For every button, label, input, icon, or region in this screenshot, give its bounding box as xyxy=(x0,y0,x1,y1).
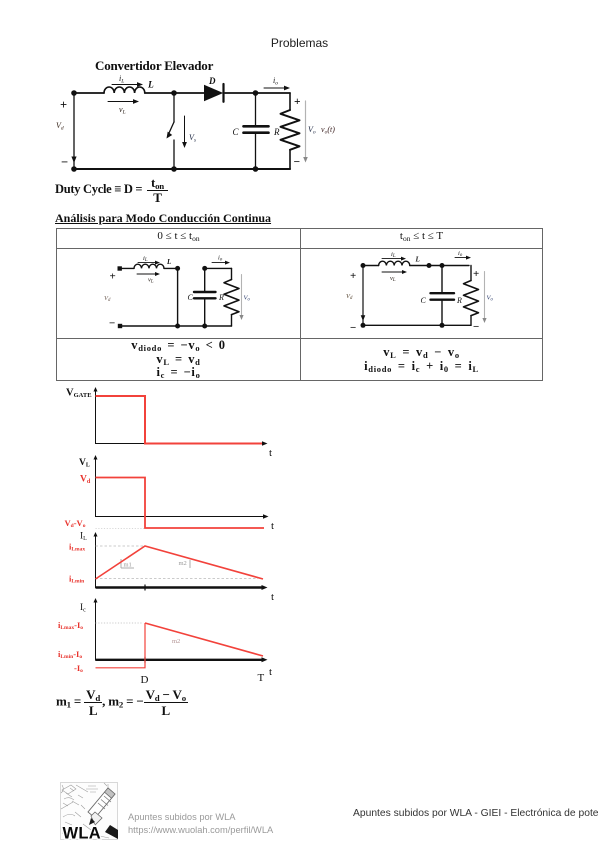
svg-text:iL: iL xyxy=(119,74,124,85)
TOP CIRCUIT SVG xyxy=(0,0,1,1)
table xyxy=(56,228,543,381)
svg-text:Vd: Vd xyxy=(56,121,64,132)
title: Convertidor Elevador xyxy=(95,58,213,74)
svg-text:Ic: Ic xyxy=(80,603,86,613)
svg-text:IL: IL xyxy=(80,532,87,542)
label iL with current arrow xyxy=(138,255,160,265)
wire: bottom rail xyxy=(120,325,232,327)
node (switch top) xyxy=(175,266,180,271)
wire: bottom rail xyxy=(74,168,290,170)
svg-text:Vd-Vo: Vd-Vo xyxy=(65,518,86,529)
svg-text:D: D xyxy=(208,76,216,86)
label Vo with output voltage arrow xyxy=(239,275,250,321)
wire: top rail left segment xyxy=(74,92,104,94)
footer right xyxy=(353,808,599,819)
node (capacitor top) xyxy=(202,266,207,271)
svg-text:Vo: Vo xyxy=(308,125,316,136)
label vL with voltage arrow xyxy=(382,270,407,283)
wire: top rail to inductor xyxy=(363,265,379,267)
label iL with current arrow xyxy=(112,74,143,87)
node (after inductor) xyxy=(427,263,432,268)
svg-text:t: t xyxy=(269,447,272,459)
source Vd branch wire with arrow xyxy=(361,266,366,326)
node (capacitor bottom) xyxy=(440,323,445,328)
node (top left) xyxy=(71,90,77,96)
waveform IL: time axis (thick) xyxy=(96,585,268,591)
svg-text:t: t xyxy=(271,591,274,603)
wire: top rail to inductor xyxy=(121,267,134,269)
guide dotted line iLmax-Io xyxy=(96,622,144,624)
label vL with voltage arrow xyxy=(108,99,139,115)
svg-text:Vs: Vs xyxy=(189,133,196,144)
svg-text:m2: m2 xyxy=(179,560,187,567)
wire: top rail right segment xyxy=(225,92,290,94)
svg-text:iLmax-Io: iLmax-Io xyxy=(58,620,83,631)
waveform IC: time axis (thick) xyxy=(96,657,268,663)
inductor L (coil) xyxy=(379,261,410,265)
label Vs with voltage arrow xyxy=(182,116,196,148)
waveform IL: inductor current trace xyxy=(96,546,264,579)
svg-text:iLmax: iLmax xyxy=(69,542,85,553)
slope mark m1 xyxy=(121,559,134,569)
source Vd: left branch wire with arrow xyxy=(71,93,76,169)
waveform VGATE: time axis xyxy=(96,441,268,445)
label io with current arrow xyxy=(455,250,471,260)
svg-text:L: L xyxy=(147,81,154,91)
guide dashed line iLmin xyxy=(96,578,259,580)
wire: top rail middle segment xyxy=(145,92,205,94)
svg-text:D: D xyxy=(141,674,149,686)
wire: output section top rail xyxy=(205,267,232,269)
wire: inductor to switch node xyxy=(164,267,178,269)
label io with current arrow xyxy=(212,255,230,265)
node (capacitor top) xyxy=(440,263,445,268)
label Vo with output voltage arrow xyxy=(303,101,316,163)
inductor L (coil) xyxy=(104,87,145,93)
label io with current arrow xyxy=(264,76,290,90)
switch S (open blade) xyxy=(167,93,175,169)
svg-text:iLmin: iLmin xyxy=(69,574,84,585)
diode D xyxy=(204,76,224,102)
svg-text:VL: VL xyxy=(79,458,90,468)
source terminal + (square) xyxy=(118,266,122,270)
guide dotted line Vd-Vo xyxy=(96,528,145,530)
node (switch bottom) xyxy=(171,166,177,172)
WLA logo sketch box xyxy=(61,783,118,840)
waveform IC: capacitor current trace xyxy=(96,623,264,668)
waveform VL: inductor voltage trace xyxy=(96,478,265,529)
svg-text:R: R xyxy=(273,127,280,137)
node (switch bottom) xyxy=(175,324,180,329)
node (diode cathode) xyxy=(253,90,259,96)
capacitor C xyxy=(233,93,269,169)
waveform VGATE: gate signal trace xyxy=(96,396,263,444)
svg-text:Vd: Vd xyxy=(80,475,91,485)
svg-text:−: − xyxy=(61,155,68,169)
guide dashed line iLmax xyxy=(96,545,145,547)
waveform VL: vertical axis xyxy=(94,455,98,517)
svg-text:m2: m2 xyxy=(172,638,180,645)
wire: bottom rail xyxy=(363,324,471,326)
svg-text:VGATE: VGATE xyxy=(66,388,92,400)
label iL with current arrow xyxy=(382,251,406,261)
svg-text:-Io: -Io xyxy=(74,663,83,674)
waveform VL: time axis xyxy=(96,514,269,518)
capacitor C xyxy=(188,268,216,326)
resistor R xyxy=(218,268,239,326)
inductor L (coil) xyxy=(134,264,164,268)
svg-text:+: + xyxy=(60,98,67,112)
waveform IC: vertical axis xyxy=(94,598,98,661)
svg-text:T: T xyxy=(258,672,265,684)
section heading xyxy=(55,211,271,226)
waveform IL: vertical axis xyxy=(94,532,98,588)
capacitor C xyxy=(421,266,455,326)
label vL with voltage arrow xyxy=(137,272,160,285)
source terminal - (square) xyxy=(118,324,122,328)
wire: closed switch vertical xyxy=(177,268,179,326)
svg-text:io: io xyxy=(273,76,278,87)
resistor R xyxy=(456,266,479,326)
slope mark m2 xyxy=(179,560,191,568)
svg-text:iLmin-Io: iLmin-Io xyxy=(58,649,82,660)
node (source top) xyxy=(361,263,366,268)
m1 m2 formula xyxy=(56,687,188,718)
wire: inductor to output node xyxy=(410,265,469,267)
svg-text:t: t xyxy=(269,666,272,678)
node (bottom left) xyxy=(71,166,77,172)
footer left: logo xyxy=(60,782,118,840)
svg-text:m1: m1 xyxy=(124,562,132,569)
waveform VGATE: vertical axis xyxy=(94,387,98,444)
label Vo with output voltage arrow xyxy=(482,272,493,324)
svg-text:t: t xyxy=(271,520,274,532)
node (capacitor bottom) xyxy=(202,324,207,329)
resistor R xyxy=(273,93,300,169)
node (capacitor bottom) xyxy=(253,166,259,172)
svg-text:C: C xyxy=(233,127,240,137)
svg-text:+: + xyxy=(294,96,301,108)
node (switch top) xyxy=(171,90,177,96)
svg-text:vL: vL xyxy=(119,105,126,116)
Duty Cycle formula xyxy=(55,175,168,205)
header: Problemas xyxy=(0,36,599,50)
svg-text:vo(t): vo(t) xyxy=(321,125,335,136)
svg-text:−: − xyxy=(294,157,301,169)
node (source bottom) xyxy=(361,323,366,328)
